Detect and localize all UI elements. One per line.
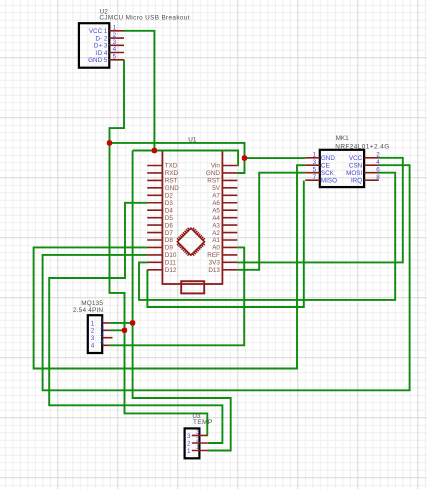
svg-text:2: 2 [100,324,104,331]
svg-text:GND: GND [165,185,179,192]
svg-text:1: 1 [113,25,117,32]
svg-text:2: 2 [91,328,95,335]
svg-text:D11: D11 [165,260,177,267]
svg-text:7: 7 [313,174,317,181]
svg-text:3V3: 3V3 [209,260,221,267]
svg-text:A2: A2 [212,230,220,237]
svg-text:A1: A1 [212,237,220,244]
svg-text:CE: CE [321,163,330,170]
svg-text:1: 1 [196,444,200,451]
svg-text:4: 4 [100,339,104,346]
svg-text:1: 1 [91,320,95,327]
svg-text:CSN: CSN [349,163,363,170]
svg-text:5V: 5V [212,185,221,192]
svg-text:1: 1 [100,317,104,324]
svg-text:RXD: RXD [165,170,179,177]
svg-text:RST: RST [165,178,178,185]
svg-text:D5: D5 [165,215,174,222]
svg-text:3: 3 [113,39,117,46]
svg-text:D12: D12 [165,267,177,274]
svg-text:2.54 4PIN: 2.54 4PIN [73,307,103,314]
svg-text:3: 3 [91,335,95,342]
svg-text:A3: A3 [212,222,220,229]
svg-text:RST: RST [207,178,220,185]
svg-text:A6: A6 [212,200,220,207]
svg-text:2: 2 [187,440,191,447]
svg-text:1: 1 [313,152,317,159]
svg-text:D10: D10 [165,252,177,259]
svg-text:GND 5: GND 5 [88,57,108,64]
svg-text:A5: A5 [212,207,220,214]
svg-text:1: 1 [187,448,191,455]
svg-text:D8: D8 [165,237,174,244]
svg-text:CJMCU Micro USB Breakout: CJMCU Micro USB Breakout [99,15,189,22]
svg-text:D3: D3 [165,200,174,207]
svg-text:5: 5 [113,54,117,61]
svg-text:3: 3 [196,429,200,436]
svg-text:D7: D7 [165,230,174,237]
svg-text:TEMP: TEMP [193,419,213,426]
svg-text:8: 8 [376,174,380,181]
svg-text:3: 3 [313,159,317,166]
svg-text:4: 4 [113,46,117,53]
svg-text:D9: D9 [165,245,174,252]
svg-text:D- 2: D- 2 [95,35,107,42]
svg-text:2: 2 [376,152,380,159]
svg-text:D13: D13 [208,267,220,274]
svg-text:2: 2 [196,437,200,444]
svg-text:A7: A7 [212,193,220,200]
svg-text:D+ 3: D+ 3 [94,43,108,50]
svg-text:A0: A0 [212,245,220,252]
svg-text:4: 4 [376,159,380,166]
svg-text:5: 5 [313,167,317,174]
svg-text:REF: REF [207,252,220,259]
svg-text:IRQ: IRQ [351,177,362,184]
svg-text:A4: A4 [212,215,220,222]
svg-text:2: 2 [113,32,117,39]
svg-text:TXD: TXD [165,163,178,170]
svg-text:U1: U1 [188,137,197,144]
svg-text:D2: D2 [165,193,174,200]
svg-text:D6: D6 [165,222,174,229]
svg-text:3: 3 [100,331,104,338]
svg-text:GND: GND [321,155,335,162]
svg-text:MK1: MK1 [336,135,350,142]
svg-text:MQ135: MQ135 [81,300,103,307]
svg-text:D4: D4 [165,207,174,214]
svg-text:MOSI: MOSI [346,170,362,177]
svg-text:VCC: VCC [349,155,363,162]
svg-text:4: 4 [91,343,95,350]
svg-text:VCC 1: VCC 1 [89,28,108,35]
svg-text:6: 6 [376,167,380,174]
svg-text:ID 4: ID 4 [96,50,108,57]
svg-text:MISO: MISO [321,177,337,184]
svg-text:3: 3 [187,433,191,440]
svg-text:NRF24L01+2.4G: NRF24L01+2.4G [335,144,389,151]
svg-text:GND: GND [206,170,220,177]
svg-text:Vin: Vin [211,163,220,170]
svg-text:SCK: SCK [321,170,335,177]
